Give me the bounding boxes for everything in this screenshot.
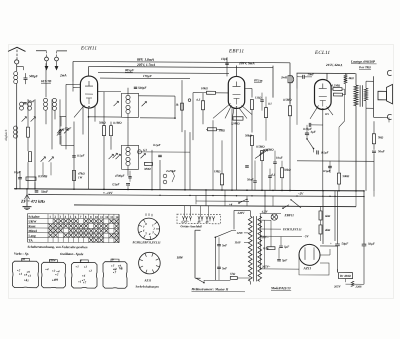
svg-text:14: 14 [115,215,118,219]
svg-text:Lang: Lang [29,234,36,238]
svg-text:1MΩ: 1MΩ [214,169,221,173]
svg-text:Kurz: Kurz [29,224,37,228]
svg-text:11: 11 [100,215,103,219]
svg-text:–2V: –2V [297,192,304,196]
svg-text:Mittel: Mittel [29,229,37,233]
svg-text:1MΩ: 1MΩ [219,128,226,132]
svg-text:50µF: 50µF [342,242,349,246]
svg-text:EBF11: EBF11 [284,213,295,217]
svg-text:50kΩ: 50kΩ [99,121,106,125]
svg-text:0.5: 0.5 [325,112,329,116]
svg-text:0.1MΩ: 0.1MΩ [113,121,122,125]
svg-text:Schalter: Schalter [29,215,41,219]
svg-text:220V: 220V [237,211,246,215]
svg-text:205V, 5mA: 205V, 5mA [238,61,255,65]
svg-text:615/1B: 615/1B [41,79,52,83]
svg-text:4kΩ: 4kΩ [324,228,331,232]
svg-text:50nF: 50nF [41,190,49,194]
svg-text:6,3: 6,3 [143,148,147,152]
svg-text:12: 12 [105,215,108,219]
svg-text:125V: 125V [237,231,244,235]
svg-text:3µF: 3µF [310,130,316,134]
svg-text:0.1µF: 0.1µF [153,143,160,147]
svg-text:111Ω: 111Ω [255,96,262,100]
svg-text:Abgleich: Abgleich [4,129,8,142]
svg-text:4kΩ: 4kΩ [348,76,355,80]
svg-text:~35pF: ~35pF [63,126,71,130]
svg-text:380Ω: 380Ω [143,167,151,171]
svg-text:Lautspr. 698/20P: Lautspr. 698/20P [350,60,376,64]
svg-text:ECH11,ECL11: ECH11,ECL11 [282,227,302,231]
svg-text:205V, 1.7mA: 205V, 1.7mA [136,63,156,67]
svg-text:4700pF: 4700pF [114,174,125,178]
svg-text:13: 13 [110,215,113,219]
svg-text:18W: 18W [177,256,184,260]
svg-text:ECL11: ECL11 [314,51,330,56]
svg-text:Modell 822/13: Modell 822/13 [270,286,291,290]
svg-text:0.1µF: 0.1µF [321,150,328,154]
svg-text:AZ11: AZ11 [303,266,312,270]
svg-text:500pF: 500pF [29,74,39,78]
svg-text:0.1: 0.1 [268,102,272,106]
svg-text:Geräte-Anschluß: Geräte-Anschluß [181,224,203,228]
svg-text:TA: TA [29,238,34,242]
svg-text:50µF: 50µF [368,242,375,246]
svg-text:50nF: 50nF [247,178,254,182]
svg-text:5µF: 5µF [284,245,289,249]
svg-text:500pF: 500pF [138,86,147,90]
svg-text:ECH11: ECH11 [80,46,97,51]
svg-text:0.5: 0.5 [197,98,201,102]
svg-text:6kΩ: 6kΩ [325,214,331,218]
svg-text:1k: 1k [176,103,179,107]
svg-text:50nF: 50nF [378,149,385,153]
svg-text:+: + [330,242,332,246]
svg-text:57Ω: 57Ω [230,272,236,276]
svg-text:215V, 42mA: 215V, 42mA [325,63,343,67]
svg-text:Oszillator– Spule: Oszillator– Spule [60,252,84,256]
svg-text:110V: 110V [235,240,242,244]
svg-text:0.1µF: 0.1µF [77,153,84,157]
svg-text:5nF: 5nF [222,243,227,247]
svg-text:0.5MΩ: 0.5MΩ [38,174,48,178]
svg-text:20: 20 [21,257,25,261]
svg-text:805µV: 805µV [125,68,135,72]
svg-text:50kΩ: 50kΩ [284,168,291,172]
svg-text:88V, 1.8mA: 88V, 1.8mA [137,58,155,62]
svg-text:2mΩ: 2mΩ [280,75,288,79]
svg-text:Dr 400Ω: Dr 400Ω [339,274,352,278]
svg-text:0.2MΩ: 0.2MΩ [332,84,341,88]
svg-text:5µF: 5µF [282,258,287,262]
svg-text:875/m: 875/m [254,79,263,83]
svg-text:5nF: 5nF [222,266,227,270]
svg-text:265V: 265V [333,285,341,289]
svg-text:2x25µF: 2x25µF [165,169,176,173]
svg-text:2,5µF: 2,5µF [111,182,119,186]
svg-text:Meßinstrument : Muster II: Meßinstrument : Muster II [191,287,229,291]
svg-text:205V~: 205V~ [261,265,271,269]
svg-text:5kΩ: 5kΩ [378,135,384,139]
svg-text:6,3V: 6,3V [262,210,269,214]
svg-text:0.5MΩ: 0.5MΩ [256,145,265,149]
svg-text:UKW: UKW [29,219,38,223]
svg-text:220V: 220V [355,285,363,289]
svg-text:EBF11: EBF11 [228,49,244,54]
svg-text:50pF: 50pF [28,99,35,103]
svg-text:2mA: 2mA [59,73,67,77]
svg-text:ZF = 472 kHz: ZF = 472 kHz [20,199,45,204]
svg-text:6,3V~: 6,3V~ [182,220,190,224]
svg-text:0.5MΩ: 0.5MΩ [283,98,292,102]
svg-text:Sockelschaltungen: Sockelschaltungen [136,285,160,289]
svg-text:0,1µ: 0,1µ [263,246,269,250]
svg-text:UKW: UKW [49,258,56,262]
svg-text:10: 10 [95,215,98,219]
svg-text:ECH11,EBF11,ECL11: ECH11,EBF11,ECL11 [132,240,162,244]
svg-text:1W: 1W [78,175,82,179]
svg-text:50kΩ: 50kΩ [245,133,252,137]
svg-text:3,9MΩ: 3,9MΩ [230,121,240,125]
svg-text:–5V: –5V [303,234,310,238]
svg-text:16pF: 16pF [221,57,229,61]
svg-text:10kΩ: 10kΩ [201,86,208,90]
svg-text:10nF: 10nF [276,156,283,160]
svg-text:20nF: 20nF [307,72,315,76]
svg-text:Schalteranordnung, von Federse: Schalteranordnung, von Federseite gesehe… [28,245,88,249]
svg-text:170µV: 170µV [143,74,153,78]
svg-text:0,1: 0,1 [272,173,276,177]
svg-text:50kΩ: 50kΩ [343,174,350,178]
svg-text:+4: +4 [229,202,233,206]
svg-text:AZ11: AZ11 [144,278,152,282]
svg-text:Vorkr.– Sp.: Vorkr.– Sp. [14,252,29,256]
svg-text:0.5µF: 0.5µF [323,169,330,173]
svg-text:8 or 7kΩ: 8 or 7kΩ [359,65,371,69]
svg-text:≈ –10V: ≈ –10V [103,191,113,195]
